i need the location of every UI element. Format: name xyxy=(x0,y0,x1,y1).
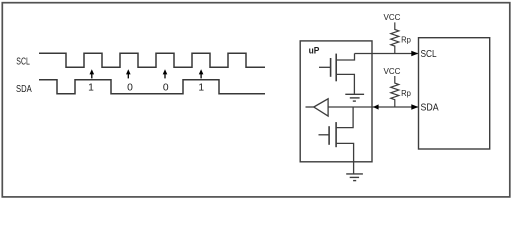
transistor Q2 channel xyxy=(335,122,337,147)
transistor Q1 channel xyxy=(335,54,337,82)
svg-text:SDA: SDA xyxy=(421,103,439,114)
svg-text:uP: uP xyxy=(309,46,320,56)
ground (Q1 source) xyxy=(345,94,364,101)
svg-text:1: 1 xyxy=(198,83,204,94)
resistor Rp (SCL pull-up) xyxy=(391,22,399,53)
slave device box U3 xyxy=(419,38,490,149)
svg-text:VCC: VCC xyxy=(384,67,401,76)
svg-text:0: 0 xyxy=(163,83,169,94)
transistor Q2 gate plate xyxy=(328,126,330,145)
svg-text:Rp: Rp xyxy=(401,35,411,45)
transistor Q1 gate plate xyxy=(330,58,332,77)
resistor Rp (SDA pull-up) xyxy=(391,76,399,107)
transistor Q2 source lead xyxy=(336,143,354,173)
sample arrow 1 xyxy=(90,69,95,78)
transistor Q1 drain lead xyxy=(336,54,354,61)
transistor Q2 (SDA driver) gate lead xyxy=(319,134,330,136)
wire SCL net (uP to slave) xyxy=(355,53,418,55)
svg-text:Rp: Rp xyxy=(401,88,411,98)
buffer U2 (input receiver triangle) xyxy=(314,99,328,116)
transistor Q1 (SCL driver) gate lead xyxy=(319,66,331,68)
SDA arrowhead into slave xyxy=(411,104,418,110)
buffer U2 input stub xyxy=(306,106,314,108)
svg-text:VCC: VCC xyxy=(384,13,401,22)
sample arrow 3 xyxy=(163,69,168,78)
svg-text:SDA: SDA xyxy=(16,84,32,95)
SDA arrowhead into uP xyxy=(373,104,379,109)
wire SDA net (uP to slave) xyxy=(328,106,418,108)
wire SDA data waveform xyxy=(39,80,265,94)
wire SCL clock waveform xyxy=(39,53,265,67)
svg-text:SCL: SCL xyxy=(421,49,437,60)
uP box U1 xyxy=(300,41,372,162)
svg-text:1: 1 xyxy=(88,83,94,94)
sample arrow 4 xyxy=(199,69,204,78)
sample arrow 2 xyxy=(126,69,131,78)
transistor Q2 drain lead xyxy=(336,107,353,128)
transistor Q1 source lead xyxy=(336,74,354,94)
svg-text:0: 0 xyxy=(127,83,133,94)
svg-text:SCL: SCL xyxy=(16,56,30,67)
ground (Q2 source, below uP box) xyxy=(346,174,363,181)
SCL arrowhead into slave xyxy=(411,51,418,57)
